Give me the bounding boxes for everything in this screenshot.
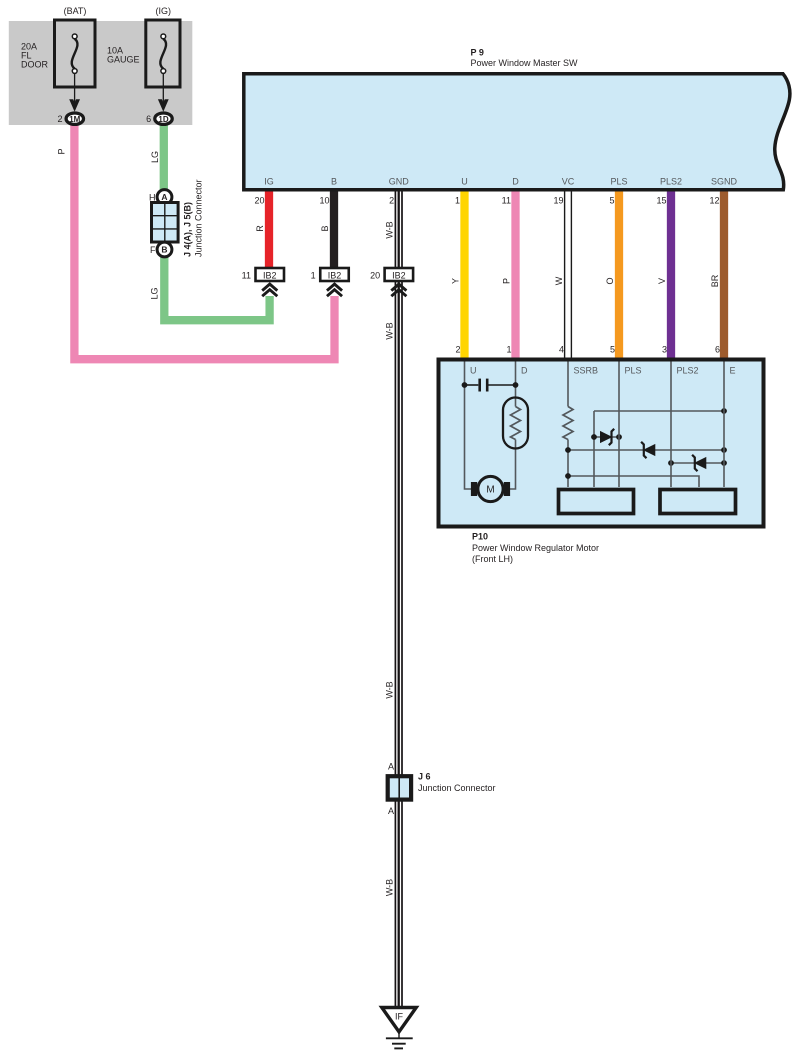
svg-text:IB2: IB2 [328,270,342,280]
svg-text:U: U [461,177,468,187]
wire SSRB internal upper [567,362,569,407]
ground symbol [386,1032,413,1049]
svg-text:A: A [161,192,167,202]
svg-text:2: 2 [57,114,62,124]
svg-text:5: 5 [609,196,614,206]
wire V from P9 PLS2 to P10 pin 3 [667,192,675,358]
svg-text:A: A [388,762,394,772]
svg-text:U: U [470,366,477,376]
sensor block 2 [660,490,736,514]
svg-text:IG: IG [264,177,274,187]
wire internal horizontal PLS2 to E [671,462,724,464]
svg-text:PLS2: PLS2 [677,366,699,376]
svg-text:GND: GND [389,177,410,187]
svg-text:A: A [388,806,394,816]
svg-text:R: R [255,225,265,232]
wire B from P9 B to IB2 1 [330,192,338,269]
svg-text:Power Window Master SW: Power Window Master SW [471,58,579,68]
svg-text:J 4(A), J 5(B): J 4(A), J 5(B) [183,202,193,257]
svg-text:3: 3 [662,345,667,355]
ground point IF [382,1008,416,1032]
svg-text:B: B [331,177,337,187]
connector terminal 1M, pin 2 [57,113,83,124]
svg-text:O: O [605,277,615,284]
svg-text:1: 1 [506,345,511,355]
svg-text:1M: 1M [69,115,80,124]
svg-text:Power Window Regulator Motor: Power Window Regulator Motor [472,543,599,553]
svg-text:B: B [320,225,330,231]
svg-text:2: 2 [455,345,460,355]
svg-text:D: D [521,366,528,376]
wire PLS2 internal [670,362,672,488]
svg-text:SSRB: SSRB [574,366,599,376]
thermistor zigzag on D [511,407,521,440]
diode D2 [641,442,655,458]
junction connector J4(A)/J5(B) pin A [149,190,172,205]
junction dot SSRB mid [565,447,571,453]
wire D internal lower [509,440,516,490]
svg-text:LG: LG [150,287,160,299]
svg-text:(IG): (IG) [156,6,172,16]
wire internal diode D1 branch N1 to PLS [594,436,619,438]
svg-text:J 6: J 6 [418,772,431,782]
svg-text:11: 11 [502,196,511,206]
svg-text:Y: Y [451,278,461,284]
svg-text:E: E [730,366,736,376]
junction dot D-capacitor [513,382,519,388]
junction connector J6 body [388,776,411,799]
connector arrows under IB2 11 [262,284,277,296]
svg-text:20: 20 [370,270,380,280]
diode D1 [601,429,615,445]
wire internal horizontal N1 to E [594,410,724,412]
junction connector J4(A), J5(B) body [152,203,179,243]
svg-text:IB2: IB2 [263,270,277,280]
junction dot E top horizontal [721,408,727,414]
svg-text:W: W [554,276,564,285]
svg-text:6: 6 [715,345,720,355]
wire from fuse F2 to connector 1D [162,74,164,103]
svg-text:W-B: W-B [385,322,395,339]
motor M [478,476,503,501]
svg-text:11: 11 [242,270,251,280]
connector arrows under IB2 20 [391,284,406,296]
svg-text:W-B: W-B [385,221,395,238]
wire BR from P9 SGND to P10 pin 6 [720,192,728,358]
junction dot U-capacitor [462,382,468,388]
fuse F2 10A GAUGE (IG) [107,6,180,87]
svg-text:F: F [150,245,156,255]
wire LG from fuse 1D down to junction connector A [160,122,168,193]
wire W-B from P9 GND down to ground IF [395,192,403,1008]
connector arrows under IB2 1 [327,284,342,296]
svg-text:1D: 1D [158,115,168,124]
wire E internal [723,362,725,488]
svg-text:(BAT): (BAT) [64,6,87,16]
svg-text:GAUGE: GAUGE [107,55,140,65]
svg-text:Junction Connector: Junction Connector [418,783,496,793]
in-line connector IB2 pin 1 [311,268,349,281]
svg-text:10: 10 [319,196,329,206]
svg-text:12: 12 [709,196,719,206]
svg-text:20: 20 [254,196,264,206]
wire Y from P9 U to P10 pin 2 [460,192,468,358]
connector terminal 1D, pin 6 [146,113,172,124]
svg-text:D: D [512,177,519,187]
diode D3 [692,455,706,471]
junction dot E mid [721,447,727,453]
fuse block background (junction block J/B) [9,21,193,125]
svg-text:B: B [161,245,167,255]
resistor zigzag on SSRB [563,407,573,440]
ECU P10 Power Window Regulator Motor box [439,360,764,527]
svg-text:BR: BR [710,274,720,287]
motor M brushes [471,482,477,496]
junction dot E lower [721,460,727,466]
ECU P9 Power Window Master SW box [244,74,790,190]
svg-text:VC: VC [562,177,575,187]
wire internal horizontal SSRB to E [568,449,724,451]
in-line connector IB2 pin 20 [370,268,413,281]
wire internal vertical at node N1 [593,411,595,487]
svg-text:LG: LG [150,151,160,163]
svg-text:M: M [486,485,494,496]
svg-text:1: 1 [455,196,460,206]
junction connector J4(A)/J5(B) pin B [150,242,172,257]
svg-text:4: 4 [559,345,564,355]
svg-text:P: P [502,278,512,284]
svg-text:(Front LH): (Front LH) [472,554,513,564]
wire SSRB internal lower [567,440,569,488]
svg-text:W-B: W-B [385,879,395,896]
wire O from P9 PLS to P10 pin 5 [615,192,623,358]
wire P from fuse 1M down-right to IB2 connector 1 [74,122,334,359]
svg-text:V: V [657,278,667,284]
svg-text:PLS: PLS [625,366,642,376]
wire PLS internal [618,362,620,488]
capacitor C1 between U and D [465,379,516,392]
svg-text:W-B: W-B [385,681,395,698]
wire U internal [465,362,472,490]
svg-text:IB2: IB2 [392,270,406,280]
svg-text:19: 19 [553,196,563,206]
svg-text:P 9: P 9 [471,48,484,58]
wire internal horizontal SSRB lower to sensor 2 [568,476,699,487]
in-line connector IB2 pin 11 [242,268,284,281]
fuse F1 20A FL DOOR (BAT) [21,6,95,87]
wire P from P9 D to P10 pin 1 [511,192,519,358]
svg-text:PLS: PLS [610,177,627,187]
svg-text:PLS2: PLS2 [660,177,682,187]
svg-text:Junction Connector: Junction Connector [194,179,204,257]
thermistor oval [503,398,528,449]
svg-text:1: 1 [311,270,316,280]
wire R from P9 IG to IB2 11 [265,192,273,269]
svg-text:P: P [57,148,67,154]
junction dot PLS-diode line [616,434,622,440]
svg-text:15: 15 [656,196,666,206]
wire W from P9 VC to P10 pin 4 [565,192,572,358]
svg-text:DOOR: DOOR [21,59,49,69]
svg-text:5: 5 [610,345,615,355]
arrow into connector 1D [158,99,169,112]
junction dot PLS2 [668,460,674,466]
sensor block 1 [559,490,634,514]
wire D internal upper [515,362,517,407]
svg-text:6: 6 [146,114,151,124]
svg-text:SGND: SGND [711,177,738,187]
svg-text:P10: P10 [472,532,488,542]
wire LG from junction connector B down-right to IB2 connector 11 [164,255,269,320]
junction dot N1-diode line [591,434,597,440]
svg-text:IF: IF [395,1012,404,1022]
arrow into connector 1M [69,99,80,112]
junction dot SSRB lower [565,473,571,479]
wire from fuse F1 to connector 1M [74,74,76,103]
svg-text:2: 2 [389,196,394,206]
